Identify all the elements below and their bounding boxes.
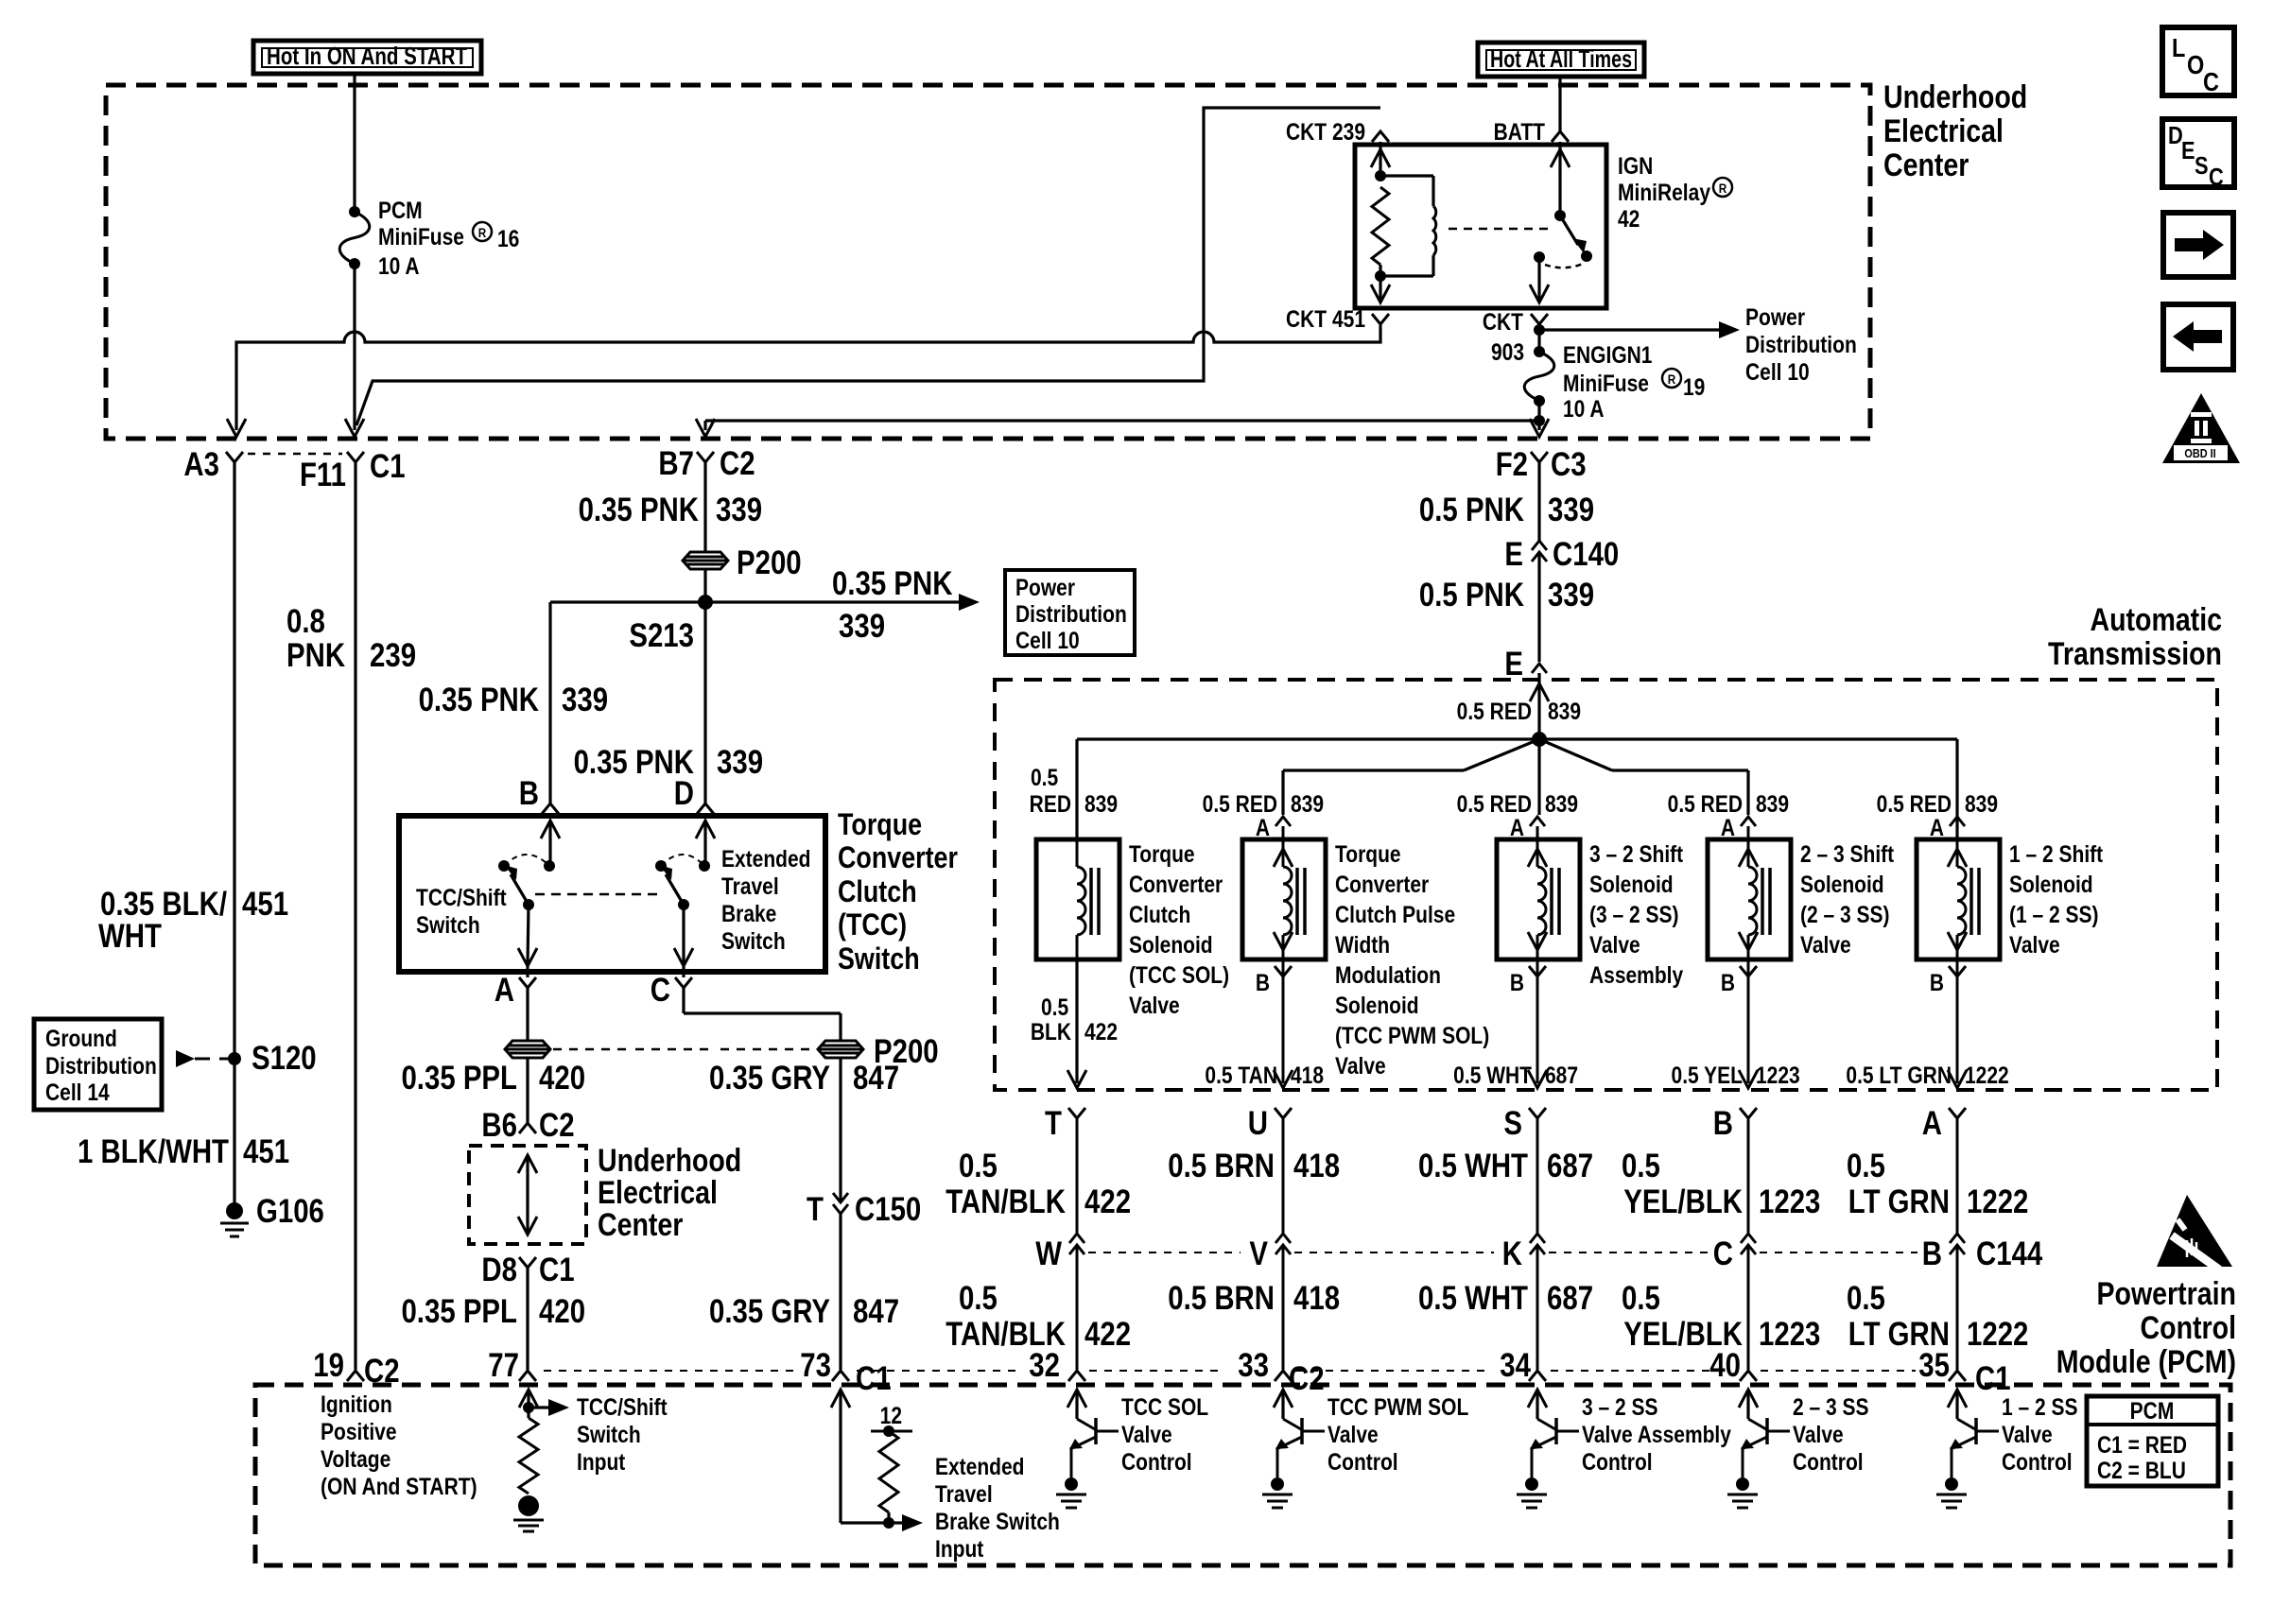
svg-text:A: A — [1256, 814, 1270, 840]
svg-text:0.5 PNK: 0.5 PNK — [1419, 492, 1525, 528]
svg-text:B: B — [519, 775, 539, 812]
svg-text:Automatic: Automatic — [2090, 602, 2222, 638]
arrow into B7 (at dashed edge) — [696, 419, 715, 437]
relay IGN MiniRelay 42 box — [1355, 145, 1606, 308]
pin A of transmission connector — [1949, 1108, 1966, 1118]
transistor TCC PWM SOL valve control driver — [1274, 1390, 1293, 1408]
pin B of solenoid column 5 — [1956, 959, 1959, 976]
svg-text:BLK: BLK — [1031, 1018, 1071, 1045]
svg-text:Valve Assembly: Valve Assembly — [1582, 1421, 1731, 1447]
pin B of TCC switch — [542, 803, 559, 814]
wire: CKT339 run to B7 — [705, 419, 1539, 422]
svg-text:A: A — [1922, 1105, 1942, 1142]
pin V of C144 — [1275, 1234, 1291, 1243]
svg-text:F2: F2 — [1496, 446, 1528, 483]
svg-text:YEL/BLK: YEL/BLK — [1623, 1183, 1743, 1220]
arrow at transmission edge column U — [1274, 1070, 1293, 1088]
svg-text:Extended: Extended — [721, 845, 810, 872]
arrow at transmission edge column S — [1528, 1070, 1547, 1088]
PCM legend box — [2087, 1396, 2218, 1486]
svg-text:ENGIGN1: ENGIGN1 — [1563, 341, 1653, 368]
resistor inside relay — [1372, 187, 1389, 265]
arrow at transmission edge column A — [1948, 1070, 1967, 1088]
svg-text:Solenoid: Solenoid — [2009, 871, 2093, 897]
svg-text:Control: Control — [1582, 1448, 1653, 1475]
svg-text:C1: C1 — [1975, 1360, 2011, 1397]
svg-text:K: K — [1502, 1235, 1523, 1272]
svg-text:S120: S120 — [252, 1040, 317, 1077]
svg-text:R: R — [1719, 181, 1727, 196]
Extended Travel Brake switch input arrow — [696, 821, 715, 838]
svg-text:Solenoid: Solenoid — [1129, 931, 1213, 958]
svg-text:C144: C144 — [1976, 1235, 2042, 1272]
svg-text:32: 32 — [1029, 1347, 1060, 1384]
svg-text:Switch: Switch — [721, 927, 786, 954]
svg-text:RED: RED — [1030, 790, 1071, 817]
connector T / C150 — [833, 1193, 848, 1202]
svg-text:0.35 PNK: 0.35 PNK — [419, 682, 540, 718]
svg-text:77: 77 — [488, 1347, 519, 1384]
svg-text:S: S — [2195, 152, 2209, 180]
svg-text:TCC/Shift: TCC/Shift — [416, 884, 507, 910]
Torque Converter Clutch (TCC) Switch box — [399, 816, 825, 972]
relay coil (inductor) — [1380, 174, 1433, 177]
svg-text:(TCC): (TCC) — [838, 908, 907, 942]
transistor 3-2 SS valve assembly control driver — [1528, 1390, 1547, 1408]
svg-text:A3: A3 — [183, 446, 219, 483]
svg-text:Converter: Converter — [838, 841, 958, 875]
svg-text:R: R — [1668, 371, 1676, 387]
svg-text:B: B — [1510, 969, 1524, 995]
pin K of C144 — [1530, 1234, 1545, 1243]
node: CKT339 junction — [1534, 415, 1545, 426]
svg-text:0.5: 0.5 — [1622, 1148, 1660, 1184]
svg-text:(1 – 2 SS): (1 – 2 SS) — [2009, 901, 2099, 927]
svg-text:D8: D8 — [481, 1252, 517, 1288]
connector P200 (PPL/GRY) — [505, 1041, 550, 1058]
svg-text:418: 418 — [1291, 1062, 1324, 1088]
pin 35 / C1 of PCM — [1949, 1371, 1966, 1381]
svg-text:Hot In ON And START: Hot In ON And START — [267, 42, 467, 70]
wire: D8 to PCM pin 77 — [526, 1268, 529, 1370]
transistor 2-3 SS valve control driver — [1739, 1390, 1758, 1408]
svg-text:Distribution: Distribution — [45, 1052, 157, 1079]
Power Distribution Cell 10 box (middle) — [1005, 570, 1135, 655]
pin B of C144 — [1950, 1234, 1965, 1243]
svg-text:B7: B7 — [658, 445, 694, 482]
svg-text:Assembly: Assembly — [1589, 961, 1683, 988]
svg-text:0.5 RED: 0.5 RED — [1457, 698, 1532, 724]
pin 73 / C1 of PCM — [832, 1371, 849, 1381]
Underhood Electrical Center boundary (dashed box) — [106, 85, 1870, 439]
wire: brake switch output to C — [682, 905, 685, 964]
svg-text:12: 12 — [880, 1402, 902, 1428]
relay dashed actuation link — [1449, 228, 1549, 231]
wire: F11/C1 down to PCM pin 19 — [354, 462, 356, 1370]
svg-text:Center: Center — [598, 1207, 683, 1243]
svg-text:0.5: 0.5 — [1847, 1148, 1885, 1184]
relay switch lever — [1560, 216, 1578, 245]
svg-text:239: 239 — [370, 637, 416, 674]
svg-text:CKT: CKT — [1483, 308, 1523, 335]
svg-text:C: C — [2203, 68, 2219, 96]
svg-text:Valve: Valve — [2002, 1421, 2053, 1447]
wire: pin 73 into PCM — [831, 1390, 850, 1408]
svg-text:C150: C150 — [855, 1191, 921, 1228]
svg-text:B: B — [1256, 969, 1270, 995]
pin B of solenoid column 3 — [1536, 959, 1539, 976]
svg-text:0.5: 0.5 — [1847, 1280, 1885, 1317]
pin CKT 451 of relay — [1372, 314, 1389, 324]
svg-text:0.5: 0.5 — [959, 1148, 998, 1184]
icon: back arrow box — [2163, 304, 2233, 370]
svg-text:Brake: Brake — [721, 900, 777, 926]
relay switch output arrow — [1537, 257, 1540, 301]
pin B of transmission connector — [1740, 1108, 1757, 1118]
node: RED 839 splice — [1532, 732, 1547, 747]
solenoid TCC PWM SOL valve box — [1242, 839, 1326, 959]
svg-text:C: C — [1713, 1235, 1733, 1272]
solenoid 3-2 SS valve assembly box — [1497, 839, 1580, 959]
pin A of solenoid column 3 — [1530, 817, 1545, 826]
svg-text:0.5 TAN: 0.5 TAN — [1205, 1062, 1277, 1088]
Automatic Transmission boundary (dashed box) — [995, 680, 2217, 1090]
wire: CKT 451 horizontal run with hops — [236, 325, 1380, 430]
svg-text:Input: Input — [935, 1535, 984, 1562]
svg-text:T: T — [807, 1191, 824, 1228]
connector D8 / C1 — [519, 1257, 536, 1268]
relay switch common — [1534, 251, 1545, 263]
ground G106 — [226, 1202, 243, 1219]
svg-text:Module (PCM): Module (PCM) — [2056, 1344, 2236, 1380]
svg-text:Torque: Torque — [1335, 840, 1401, 867]
svg-text:G106: G106 — [256, 1193, 324, 1230]
svg-text:Switch: Switch — [838, 942, 920, 976]
svg-text:PCM: PCM — [378, 197, 423, 223]
svg-text:839: 839 — [1291, 790, 1324, 817]
svg-text:T: T — [1045, 1105, 1062, 1142]
wire: fuse to CKT339 junction — [1537, 401, 1540, 430]
svg-text:C2: C2 — [539, 1107, 575, 1144]
svg-text:Underhood: Underhood — [598, 1143, 741, 1179]
svg-text:Positive: Positive — [321, 1418, 397, 1444]
svg-text:0.35 GRY: 0.35 GRY — [709, 1060, 830, 1097]
svg-text:B6: B6 — [481, 1107, 517, 1144]
wire: Hot At All Times to BATT pin — [1558, 77, 1561, 131]
fuse ENGIGN1 MiniFuse 19 10A — [1534, 346, 1545, 357]
wire: pin 77 pull-up inside PCM — [519, 1390, 538, 1408]
svg-text:Control: Control — [2002, 1448, 2073, 1475]
wire: CKT903 pin to power-dist junction — [1537, 324, 1540, 352]
svg-text:2 – 3 SS: 2 – 3 SS — [1793, 1393, 1869, 1420]
svg-text:847: 847 — [853, 1060, 899, 1097]
wire: Hot In ON And START box down to PCM MiniFuse — [353, 74, 356, 212]
svg-text:1222: 1222 — [1967, 1183, 2028, 1220]
svg-text:0.5 YEL: 0.5 YEL — [1672, 1062, 1743, 1088]
pin 34 of PCM — [1529, 1371, 1546, 1381]
wire: fuse down to F11 arrow — [353, 264, 356, 430]
svg-text:839: 839 — [1756, 790, 1789, 817]
svg-text:IGN: IGN — [1618, 152, 1653, 179]
wire: P200 to B6 — [526, 1058, 529, 1123]
svg-text:F11: F11 — [300, 457, 346, 493]
wire: A pin to P200 — [526, 988, 529, 1041]
svg-text:0.5: 0.5 — [1041, 993, 1068, 1020]
svg-text:1 – 2 SS: 1 – 2 SS — [2002, 1393, 2078, 1420]
svg-text:Underhood: Underhood — [1883, 79, 2027, 115]
svg-text:BATT: BATT — [1494, 118, 1545, 145]
Ground Distribution Cell 14 box — [34, 1019, 162, 1110]
svg-text:Center: Center — [1883, 147, 1969, 183]
svg-text:C2: C2 — [720, 445, 755, 482]
pin 40 of PCM — [1740, 1371, 1757, 1381]
arrow: Extended Travel Brake Switch Input — [889, 1521, 908, 1524]
wire inside small Underhood box — [518, 1155, 537, 1173]
svg-text:E: E — [2181, 137, 2195, 164]
connector A3 — [226, 452, 243, 462]
svg-text:10 A: 10 A — [1563, 395, 1605, 422]
icon: DESC box — [2162, 119, 2234, 187]
svg-text:V: V — [1249, 1235, 1268, 1272]
svg-text:PCM: PCM — [2130, 1397, 2175, 1424]
svg-text:0.5 RED: 0.5 RED — [1668, 790, 1743, 817]
pin 32 of PCM — [1068, 1371, 1085, 1381]
wire: F2/C3 to C140 — [1537, 462, 1540, 541]
svg-text:C1: C1 — [370, 448, 406, 485]
svg-text:WHT: WHT — [98, 918, 162, 955]
svg-text:Valve: Valve — [1800, 931, 1851, 958]
svg-text:MiniFuse: MiniFuse — [378, 223, 464, 250]
svg-text:0.35 PPL: 0.35 PPL — [401, 1060, 517, 1097]
svg-text:2 – 3 Shift: 2 – 3 Shift — [1800, 840, 1894, 867]
wire: C150 to PCM pin 73 — [839, 1214, 842, 1370]
svg-text:C: C — [2209, 164, 2224, 191]
icon: LOC box — [2162, 27, 2234, 95]
svg-text:0.5 BRN: 0.5 BRN — [1168, 1280, 1275, 1317]
connector F2 / C3 — [1531, 452, 1548, 462]
svg-text:0.5 WHT: 0.5 WHT — [1418, 1148, 1528, 1184]
svg-text:B: B — [1922, 1235, 1942, 1272]
svg-text:Distribution: Distribution — [1015, 600, 1127, 627]
svg-text:L: L — [2172, 34, 2185, 62]
svg-text:0.5 WHT: 0.5 WHT — [1418, 1280, 1528, 1317]
svg-text:Electrical: Electrical — [598, 1175, 718, 1211]
svg-text:0.35 PNK: 0.35 PNK — [579, 492, 700, 528]
svg-text:Switch: Switch — [577, 1421, 641, 1447]
pin A of TCC switch — [519, 977, 536, 988]
svg-text:839: 839 — [1548, 698, 1581, 724]
pin A of solenoid column 4 — [1741, 817, 1756, 826]
svg-text:B: B — [1930, 969, 1944, 995]
TCC/Shift switch input arrow — [541, 821, 560, 838]
svg-text:Clutch Pulse: Clutch Pulse — [1335, 901, 1455, 927]
svg-text:Torque: Torque — [1129, 840, 1195, 867]
svg-text:420: 420 — [539, 1060, 585, 1097]
wire: S213 down to D pin of TCC switch — [703, 602, 706, 803]
pin S of transmission connector — [1529, 1108, 1546, 1118]
relay node: coil top — [1375, 170, 1386, 181]
wire: E pin into transmission with arrow — [1537, 673, 1540, 739]
svg-text:Travel: Travel — [935, 1480, 993, 1507]
svg-text:10 A: 10 A — [378, 252, 420, 279]
svg-text:Clutch: Clutch — [838, 875, 917, 909]
svg-text:Cell 10: Cell 10 — [1015, 627, 1080, 653]
svg-text:Control: Control — [1327, 1448, 1398, 1475]
wire: B7/C2 down to P200 — [703, 462, 706, 551]
Extended Travel Brake switch lever — [666, 874, 684, 905]
connector line PCM top (thin dashed) — [544, 1370, 794, 1372]
svg-text:Converter: Converter — [1129, 871, 1223, 897]
svg-text:A: A — [495, 972, 514, 1009]
svg-text:C2 = BLU: C2 = BLU — [2097, 1457, 2186, 1483]
svg-text:Solenoid: Solenoid — [1335, 992, 1419, 1018]
pin 77 of PCM — [519, 1371, 536, 1381]
svg-text:(3 – 2 SS): (3 – 2 SS) — [1589, 901, 1679, 927]
svg-text:0.35 GRY: 0.35 GRY — [709, 1293, 830, 1330]
svg-text:OBD II: OBD II — [2184, 446, 2215, 460]
svg-text:Modulation: Modulation — [1335, 961, 1441, 988]
svg-text:Distribution: Distribution — [1745, 331, 1857, 357]
svg-text:TCC SOL: TCC SOL — [1121, 1393, 1208, 1420]
svg-text:0.5: 0.5 — [1622, 1280, 1660, 1317]
node S213 — [698, 595, 713, 610]
resistor at pin 77 — [519, 1418, 538, 1494]
svg-text:(ON And START): (ON And START) — [321, 1473, 477, 1499]
svg-text:339: 339 — [716, 492, 762, 528]
wire: TCC SOL to T pin — [1075, 959, 1078, 1083]
svg-text:33: 33 — [1238, 1347, 1269, 1384]
pin U of transmission connector — [1275, 1108, 1292, 1118]
svg-text:TAN/BLK: TAN/BLK — [946, 1183, 1066, 1220]
svg-text:Valve: Valve — [1121, 1421, 1172, 1447]
svg-text:0.5 RED: 0.5 RED — [1203, 790, 1277, 817]
TCC/Shift switch dashed arc — [504, 855, 549, 866]
icon: OBD II triangle — [2162, 393, 2240, 463]
wire: A3 to G106 — [233, 462, 235, 1212]
relay switch dashed arc — [1545, 264, 1583, 268]
svg-text:LT GRN: LT GRN — [1848, 1183, 1950, 1220]
svg-text:Power: Power — [1015, 574, 1075, 600]
svg-text:PNK: PNK — [286, 637, 346, 674]
pin W of C144 — [1069, 1234, 1084, 1243]
svg-text:839: 839 — [1965, 790, 1998, 817]
resistor 12 (brake switch input) — [871, 1430, 912, 1433]
svg-text:E: E — [1504, 646, 1523, 682]
svg-text:Control: Control — [1793, 1448, 1864, 1475]
svg-text:1223: 1223 — [1759, 1316, 1820, 1353]
svg-text:Powertrain: Powertrain — [2097, 1276, 2236, 1312]
svg-text:S213: S213 — [629, 617, 694, 654]
svg-text:0.5 RED: 0.5 RED — [1457, 790, 1532, 817]
svg-text:1222: 1222 — [1967, 1316, 2028, 1353]
svg-text:339: 339 — [717, 744, 763, 781]
svg-text:Torque: Torque — [838, 808, 922, 842]
svg-text:0.35 PPL: 0.35 PPL — [401, 1293, 517, 1330]
svg-text:Valve: Valve — [1129, 992, 1180, 1018]
svg-text:1222: 1222 — [1965, 1062, 2009, 1088]
svg-text:0.5 PNK: 0.5 PNK — [1419, 577, 1525, 613]
solenoid 1-2 SS valve box — [1917, 839, 2000, 959]
arrow at transmission edge column B — [1739, 1070, 1758, 1088]
connector line A3-F11 (thin dashed) — [248, 453, 342, 456]
relay coil-side lower arrow — [1379, 276, 1381, 301]
Underhood Electrical Center small dashed box — [469, 1146, 586, 1244]
svg-text:1223: 1223 — [1759, 1183, 1820, 1220]
svg-text:MiniRelay: MiniRelay — [1618, 179, 1710, 205]
svg-text:Clutch: Clutch — [1129, 901, 1190, 927]
wire: C140 down to E pin — [1537, 552, 1540, 662]
svg-text:422: 422 — [1084, 1316, 1131, 1353]
svg-text:839: 839 — [1084, 790, 1118, 817]
svg-text:Travel: Travel — [721, 872, 779, 899]
pin D of TCC switch — [697, 803, 714, 814]
svg-text:Brake Switch: Brake Switch — [935, 1508, 1060, 1534]
relay coil-side upper arrow — [1371, 149, 1390, 167]
node S120 — [228, 1052, 241, 1065]
svg-text:847: 847 — [853, 1293, 899, 1330]
svg-text:Transmission: Transmission — [2048, 636, 2222, 672]
svg-text:E: E — [1504, 536, 1523, 573]
solenoid TCC SOL valve box — [1036, 839, 1119, 959]
svg-text:0.5 LT GRN: 0.5 LT GRN — [1846, 1062, 1952, 1088]
ESD sensitivity triangle — [2157, 1195, 2232, 1267]
svg-text:Electrical: Electrical — [1883, 113, 2004, 149]
arrow from Ground Distribution to S120 — [176, 1050, 195, 1067]
node: TCC/Shift switch input tap — [523, 1402, 534, 1413]
icon: forward arrow box — [2163, 213, 2233, 277]
Extended Travel Brake switch contacts — [655, 860, 667, 872]
svg-text:73: 73 — [800, 1347, 831, 1384]
svg-text:Cell 10: Cell 10 — [1745, 358, 1810, 385]
svg-text:Solenoid: Solenoid — [1589, 871, 1674, 897]
svg-text:D: D — [674, 775, 694, 812]
svg-text:422: 422 — [1084, 1183, 1131, 1220]
wire: P200 to C150 — [839, 1058, 842, 1201]
svg-text:Power: Power — [1745, 303, 1805, 330]
pin A of solenoid column 2 — [1275, 817, 1291, 826]
svg-text:R: R — [478, 225, 487, 240]
svg-text:35: 35 — [1918, 1347, 1950, 1384]
svg-text:420: 420 — [539, 1293, 585, 1330]
svg-text:CKT 239: CKT 239 — [1286, 118, 1365, 145]
switch mechanical link (dashed) — [535, 893, 662, 896]
svg-text:418: 418 — [1293, 1148, 1340, 1184]
node: CKT903 tap to Power Distribution — [1534, 324, 1545, 336]
svg-text:(TCC PWM SOL): (TCC PWM SOL) — [1335, 1022, 1489, 1048]
wire: RED 839 inner branches — [1464, 739, 1539, 770]
svg-text:0.5: 0.5 — [1031, 764, 1058, 790]
svg-text:687: 687 — [1545, 1062, 1578, 1088]
svg-text:Ground: Ground — [45, 1025, 117, 1051]
svg-text:0.5: 0.5 — [959, 1280, 998, 1317]
wire: CKT 239 run from relay to F11 diagonal — [356, 108, 1380, 425]
svg-text:34: 34 — [1500, 1347, 1531, 1384]
svg-text:B: B — [1721, 969, 1735, 995]
svg-text:W: W — [1035, 1235, 1062, 1272]
svg-text:687: 687 — [1547, 1148, 1593, 1184]
pin BATT of relay — [1552, 131, 1569, 142]
connector B7 / C2 — [697, 452, 714, 462]
svg-text:C1: C1 — [856, 1360, 892, 1397]
arrow into F2 (at dashed edge) — [1530, 419, 1549, 437]
svg-text:Hot At All Times: Hot At All Times — [1490, 44, 1632, 73]
svg-text:0.8: 0.8 — [286, 603, 325, 640]
svg-text:C140: C140 — [1553, 536, 1619, 573]
svg-text:Switch: Switch — [416, 911, 480, 938]
pin B of solenoid column 2 — [1282, 959, 1285, 976]
wire: TCC/Shift output to A — [528, 905, 529, 964]
svg-text:Converter: Converter — [1335, 871, 1429, 897]
